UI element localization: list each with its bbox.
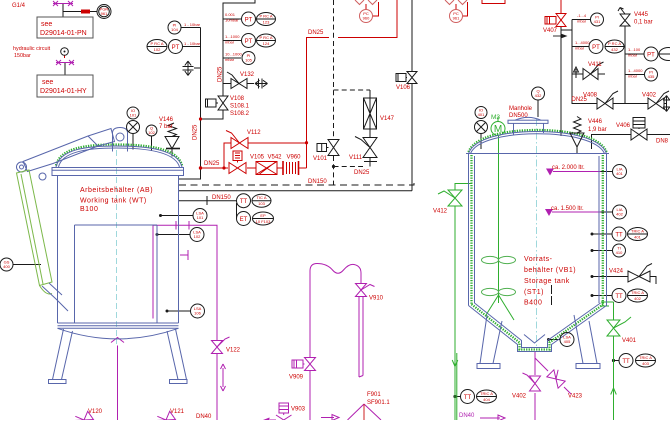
svg-text:B400: B400: [524, 300, 542, 307]
nozzle stub inside tank: [180, 250, 188, 260]
svg-text:1,9 bar: 1,9 bar: [588, 127, 607, 133]
wire vacuum header x223: [223, 0, 255, 96]
LAYER: green piping: [438, 114, 631, 420]
wire DN150 riser above V106: [411, 0, 413, 71]
LAYER: tanks: [17, 117, 610, 383]
instrument circle-dot hydraulic: [61, 48, 69, 56]
valve V120 (magenta): [73, 409, 94, 425]
hose double-arrow symbol: [221, 364, 226, 391]
wire V108 to junction: [201, 110, 224, 119]
wire V132 outlet: [247, 83, 254, 85]
cylinder foot bracket: [42, 283, 68, 311]
hinge bracket circle: [39, 173, 46, 180]
svg-text:mbar: mbar: [628, 74, 638, 79]
wire V407 inlet: [560, 0, 562, 13]
wire parallel jacket return stub: [456, 353, 458, 420]
storage tank B400 outlet funnel: [524, 335, 545, 344]
svg-text:10 F103: 10 F103: [256, 219, 271, 224]
wire V122 drain continues: [216, 354, 218, 420]
wire jacket outlet to V401: [601, 302, 614, 420]
wire LSA101 tap: [161, 215, 194, 217]
filter V147: [364, 98, 377, 129]
arrow DN40 bottom right: [480, 415, 505, 421]
svg-text:Working tank (WT): Working tank (WT): [80, 198, 147, 205]
filter V903 (magenta): [279, 403, 289, 415]
instrument PGR961: [97, 5, 111, 19]
svg-text:EP: EP: [260, 213, 266, 218]
storage tank B400 centreline: [536, 119, 538, 346]
svg-text:103: 103: [258, 201, 265, 206]
svg-text:V401: V401: [622, 338, 637, 344]
svg-text:150bar: 150bar: [14, 53, 31, 59]
flow arrow on V407 line: [553, 35, 561, 37]
svg-text:V147: V147: [380, 116, 395, 122]
svg-text:TT: TT: [240, 199, 248, 205]
svg-text:V101: V101: [313, 156, 328, 162]
sightglass circle-X 401: [475, 121, 488, 134]
flange ticks on manifold: [176, 221, 189, 230]
svg-text:404: 404: [483, 397, 490, 402]
svg-text:401: 401: [634, 235, 641, 240]
wire V147/V111 branch: [369, 90, 371, 167]
svg-text:P RC A: P RC A: [259, 14, 272, 19]
svg-text:435: 435: [648, 74, 655, 79]
svg-text:DN500: DN500: [509, 113, 528, 119]
valve under V903 (magenta): [263, 415, 292, 425]
svg-text:0.001: 0.001: [225, 12, 236, 17]
svg-text:B100: B100: [80, 206, 98, 213]
node DN25 junction y142.7: [305, 141, 308, 144]
wire V105-V542-V960 chain: [247, 167, 307, 169]
svg-text:DN25: DN25: [218, 66, 224, 82]
flange-x symbol PN line: [53, 1, 73, 6]
svg-text:1...4000: 1...4000: [575, 40, 590, 45]
valve V909 with actuator (magenta): [292, 358, 316, 371]
chevron in dished bottom: [111, 338, 124, 343]
svg-text:102: 102: [194, 234, 201, 239]
instrument Q432: [532, 87, 545, 100]
wire TT103-ET bracket: [236, 203, 239, 219]
svg-text:V146: V146: [159, 117, 174, 123]
svg-text:DN40: DN40: [196, 414, 212, 420]
wire DN150 branch to TT103: [179, 200, 237, 202]
instrument TICA103: [252, 194, 271, 207]
wire TT401 tap: [592, 233, 612, 235]
svg-text:S108.2: S108.2: [230, 111, 250, 117]
svg-text:PT: PT: [245, 39, 253, 45]
instrument IO101: [127, 107, 139, 119]
instrument PI105: [242, 52, 255, 65]
storage tank B400 top seam: [466, 153, 609, 155]
svg-text:TT: TT: [615, 233, 623, 239]
wire IO401 stem: [480, 134, 482, 150]
svg-text:400: 400: [3, 264, 10, 269]
svg-text:V412: V412: [433, 209, 448, 215]
svg-text:432: 432: [535, 93, 542, 98]
valve V407 with actuator (red): [545, 14, 566, 27]
strainer F901 cone: [348, 404, 382, 420]
wire TT403 tap (green line): [614, 360, 620, 362]
wire LIA401 tap: [601, 171, 613, 173]
valve V411: [583, 62, 604, 80]
wire DN25 vacuum dashed x333: [334, 0, 371, 185]
svg-text:TRIC A: TRIC A: [631, 290, 644, 295]
svg-text:TT: TT: [464, 395, 472, 401]
svg-text:10mbar: 10mbar: [225, 18, 239, 23]
svg-text:1...1000: 1...1000: [225, 34, 240, 39]
agitator M3 shaft: [498, 136, 500, 296]
instrument TT103: [237, 194, 251, 208]
svg-text:101: 101: [130, 113, 137, 118]
svg-text:P RC A: P RC A: [259, 35, 272, 40]
svg-text:402: 402: [634, 296, 641, 301]
svg-text:405: 405: [564, 339, 571, 344]
valve V408: [597, 91, 618, 109]
arrow up on jacket outlet line: [611, 388, 617, 404]
storage tank B400 dome inner line: [471, 134, 605, 154]
svg-text:D29014-01-HY: D29014-01-HY: [40, 88, 87, 95]
svg-text:D29014-01-PN: D29014-01-PN: [40, 30, 87, 37]
svg-text:105: 105: [245, 58, 252, 63]
svg-text:DN150: DN150: [212, 195, 231, 201]
relief valve V146: [165, 123, 180, 149]
svg-text:V105: V105: [250, 155, 265, 161]
valve V121 (magenta): [155, 409, 176, 425]
relief valve V445: [618, 8, 630, 27]
valve V112 (red): [226, 131, 248, 149]
wire LSA405 tap: [549, 339, 561, 341]
relief valve V446: [570, 117, 584, 148]
svg-text:431: 431: [594, 19, 601, 24]
storage tank B400 walls: [469, 154, 607, 306]
wire DN25 feed line to tank: [201, 167, 229, 169]
svg-text:TT: TT: [622, 359, 630, 365]
instrument PI431: [591, 13, 604, 26]
svg-text:V132: V132: [240, 72, 255, 78]
wire x572 instrument header: [561, 20, 590, 104]
wire V411 stub: [598, 73, 605, 75]
svg-text:SF901.1: SF901.1: [367, 400, 390, 406]
svg-text:G1/4: G1/4: [12, 3, 26, 9]
svg-text:mbar: mbar: [225, 40, 235, 45]
svg-text:mbar: mbar: [577, 19, 587, 24]
valve V412 (green): [438, 190, 462, 206]
level mark ca 2000 ltr: [553, 171, 601, 173]
working tank B100 bottom flange: [58, 323, 179, 328]
wire tank bottom drain: [117, 346, 119, 421]
instrument PIRCA123: [257, 13, 276, 26]
vent to atmosphere (V132 outlet): [255, 79, 268, 89]
node junction x200 y119: [199, 117, 202, 120]
valve pair above PC960: [355, 0, 377, 5]
wire M3 stem: [497, 117, 499, 122]
svg-text:V112: V112: [247, 130, 261, 136]
wire V146 stem: [171, 149, 173, 157]
wire dip-tube manifold on working tank: [153, 225, 217, 340]
working tank B100 dome: [56, 146, 182, 167]
svg-text:DN25: DN25: [572, 97, 588, 103]
instrument PIRCA432: [605, 40, 624, 53]
flange-x symbol HY line: [56, 60, 74, 65]
instrument PIRCA102: [147, 40, 167, 54]
svg-text:V903: V903: [291, 407, 306, 413]
wire V406 line: [592, 135, 670, 150]
svg-text:V445: V445: [634, 12, 649, 18]
valve V111: [355, 137, 377, 158]
instrument TT401: [612, 227, 626, 241]
wire jacket inlet V412: [455, 184, 472, 421]
svg-text:mbar: mbar: [575, 46, 585, 51]
valve V108 with actuator: [206, 96, 229, 110]
svg-text:102: 102: [148, 130, 155, 135]
svg-text:Vorrats-: Vorrats-: [524, 256, 553, 263]
svg-text:TIC A: TIC A: [256, 195, 266, 200]
lid hinge post: [113, 128, 128, 152]
valve V132: [227, 72, 247, 89]
lid arm pivot: [17, 162, 27, 172]
manhole DN500: [514, 124, 544, 136]
instrument PIRCA124: [257, 34, 276, 47]
svg-text:DN40: DN40: [459, 413, 475, 419]
working tank B100 right leg: [167, 329, 187, 380]
svg-text:V402: V402: [512, 394, 527, 400]
instrument IO401: [475, 107, 487, 119]
flange V445 tick: [620, 25, 630, 27]
wire DN25 nitrogen line (vertical x306): [307, 0, 398, 168]
wire LSA106 tap: [167, 310, 191, 312]
svg-text:0,1 bar: 0,1 bar: [634, 20, 653, 26]
svg-text:1...4000: 1...4000: [628, 68, 643, 73]
instrument PC961: [450, 10, 463, 23]
working tank B100 dished bottom: [58, 328, 179, 339]
arrow DN40 bottom centre: [321, 415, 339, 421]
wire IO101 stem: [132, 134, 134, 150]
svg-text:-1...4: -1...4: [577, 13, 587, 18]
wire V446 stem to dome: [576, 147, 578, 153]
svg-text:Manhole: Manhole: [509, 106, 533, 112]
svg-text:7 bar: 7 bar: [159, 124, 173, 130]
svg-text:V909: V909: [289, 375, 304, 381]
wire LIA402 tap: [601, 211, 613, 213]
wire V112 bypass branch: [224, 143, 307, 168]
working tank B100 dome inner line: [59, 148, 180, 167]
node dashed junction: [332, 165, 335, 168]
wire PC961 cluster: [456, 2, 468, 16]
svg-text:TT: TT: [615, 294, 623, 300]
instrument LSA106: [191, 304, 205, 318]
svg-text:DN25: DN25: [354, 170, 370, 176]
svg-text:401: 401: [478, 112, 485, 117]
storage tank B400 left leg: [480, 315, 502, 364]
red filled rect on PGR branch: [81, 10, 90, 14]
svg-text:401: 401: [616, 171, 623, 176]
instrument PT102: [169, 40, 183, 54]
svg-text:123: 123: [263, 20, 270, 25]
svg-text:410: 410: [616, 250, 623, 255]
svg-text:ET: ET: [240, 217, 248, 223]
wire V909 riser and swan-neck: [310, 264, 361, 358]
working tank B100 dome gasket (green): [56, 145, 182, 166]
svg-text:V542: V542: [268, 155, 283, 161]
instrument TT404: [461, 390, 475, 404]
svg-text:V406: V406: [616, 123, 631, 129]
instrument TRICA401: [628, 228, 648, 241]
instrument TRICA402: [628, 289, 648, 302]
svg-text:see: see: [42, 79, 53, 86]
svg-text:V121: V121: [170, 409, 185, 415]
instrument PIRCA434: [659, 48, 670, 61]
instrument PT432: [589, 40, 603, 54]
storage tank B400 wall jackets (green): [470, 155, 472, 304]
arrow down on jacket inlet line: [452, 350, 458, 367]
flange DN150 tick: [206, 196, 208, 205]
instrument TT402: [612, 289, 626, 303]
svg-text:106: 106: [194, 311, 201, 316]
instrument LSA102: [190, 228, 204, 242]
svg-text:PT: PT: [172, 45, 180, 51]
instrument PI435: [645, 68, 658, 81]
wire Q432 stem: [537, 100, 539, 117]
vent to atmosphere (manifold end): [663, 96, 670, 112]
wire Q102 stem: [151, 136, 153, 151]
svg-text:V411: V411: [588, 62, 602, 68]
instrument PI104: [168, 21, 181, 34]
valve pair above PC961: [445, 0, 467, 5]
valve V401 (green): [607, 317, 631, 336]
storage tank B400 bottom cone inner: [475, 303, 601, 348]
instrument Q102: [146, 125, 157, 136]
wire DN25 manifold: [572, 103, 667, 105]
svg-text:TRIC A: TRIC A: [631, 229, 644, 234]
svg-text:V446: V446: [588, 119, 603, 125]
instrument TI410: [613, 244, 626, 257]
svg-text:(ST1): (ST1): [524, 289, 544, 296]
working tank B100 top flange: [52, 168, 184, 176]
svg-text:ca. 1.500 ltr.: ca. 1.500 ltr.: [551, 206, 584, 212]
svg-text:1...100: 1...100: [628, 47, 641, 52]
instrument GS400: [0, 258, 13, 271]
wire hose double line below V910: [359, 297, 363, 377]
svg-text:V423: V423: [568, 394, 583, 400]
wire DN150 dashed vapour line: [179, 182, 414, 185]
svg-text:961: 961: [101, 11, 108, 16]
svg-text:V122: V122: [226, 348, 241, 354]
level mark ca 1500 ltr: [552, 211, 601, 213]
wire HY supply drop: [64, 63, 66, 75]
svg-text:960: 960: [363, 16, 370, 21]
storage tank B400 right leg: [574, 315, 597, 364]
wire storage tank drain: [534, 352, 536, 421]
svg-text:mbar: mbar: [225, 57, 235, 62]
svg-text:403: 403: [642, 361, 649, 366]
wire TT402 tap: [592, 295, 612, 297]
wire PI104/PT102 header: [179, 28, 201, 180]
svg-text:1 - 10bar: 1 - 10bar: [184, 41, 201, 46]
svg-text:V910: V910: [369, 296, 384, 302]
valve V106 with actuator: [396, 72, 417, 84]
svg-text:M3: M3: [491, 114, 500, 121]
agitator propeller upper: [482, 256, 516, 263]
svg-text:101: 101: [197, 215, 204, 220]
svg-text:behälter (VB1): behälter (VB1): [524, 267, 576, 274]
svg-text:PT: PT: [245, 18, 253, 24]
svg-text:DN8: DN8: [656, 139, 669, 145]
control valve V542 (red): [256, 162, 277, 175]
reference box D29014-01-HY: [37, 75, 93, 97]
storage tank B400 dome jacket (green): [469, 130, 607, 152]
svg-text:124: 124: [263, 41, 270, 46]
instrument LSA101: [193, 209, 207, 223]
svg-text:DN150: DN150: [308, 179, 327, 185]
wire DN150 solid vapour line: [179, 83, 413, 191]
svg-text:432: 432: [611, 47, 618, 52]
instrument LSA405: [560, 333, 574, 347]
instrument ET: [237, 212, 251, 226]
svg-text:P RC A: P RC A: [608, 41, 621, 46]
svg-text:S108.1: S108.1: [230, 104, 250, 110]
wire V909 outlet down: [309, 371, 311, 420]
agitator bottom guide: [486, 295, 514, 320]
wire TI410 tap: [592, 250, 612, 252]
valve V423 diagonal (magenta): [547, 368, 568, 389]
wire V423 diagonal branch: [535, 358, 571, 394]
red mark G1/4 stub: [64, 55, 66, 58]
svg-text:Arbeitsbehälter (AB): Arbeitsbehälter (AB): [80, 187, 153, 194]
working tank B100 centreline: [116, 150, 118, 344]
reference box D29014-01-PN: [37, 17, 93, 38]
wire GS400 tap: [13, 264, 41, 266]
agitator propeller lower: [482, 288, 516, 295]
svg-text:V120: V120: [88, 409, 103, 415]
storage tank B400 bottom cone jacket (green): [472, 304, 604, 349]
svg-text:V960: V960: [287, 155, 302, 161]
svg-text:DN25: DN25: [193, 124, 199, 140]
wire TT404 tap (green line): [455, 396, 461, 398]
valve V105 with pilot (red): [229, 151, 246, 174]
svg-text:104: 104: [171, 27, 178, 32]
svg-text:see: see: [41, 21, 52, 28]
sample point on V411 stem: [574, 67, 579, 78]
instrument TT403: [619, 354, 633, 368]
valve V122 (magenta): [212, 337, 230, 354]
instrument PT434: [644, 47, 658, 61]
instrument PC960: [360, 10, 373, 23]
svg-text:TRIC A: TRIC A: [480, 391, 493, 396]
svg-text:ca. 2.000 ltr.: ca. 2.000 ltr.: [552, 165, 585, 171]
svg-text:1 - 10bar: 1 - 10bar: [184, 22, 201, 27]
svg-text:PT: PT: [592, 45, 600, 51]
working tank B100 left leg: [53, 329, 73, 380]
working tank B100 inner vessel: [75, 225, 158, 323]
LAYER: red piping: [65, 0, 562, 170]
cursor bars near B400 text: [551, 285, 553, 305]
svg-text:DN25: DN25: [204, 161, 220, 167]
svg-text:V106: V106: [396, 85, 411, 91]
valve V910 (magenta): [356, 284, 375, 297]
wire V445 riser: [625, 26, 644, 104]
wire PN supply drop: [63, 4, 97, 17]
instrument LIA402: [613, 205, 627, 219]
wire V407 outlet into tank: [560, 27, 562, 136]
instrument PT124: [242, 34, 256, 48]
instrument TRICA404: [477, 390, 497, 403]
storage tank B400 dome: [469, 132, 607, 154]
instrument LIA401: [613, 165, 627, 179]
sightglass circle-X 101: [127, 121, 140, 134]
svg-text:PT: PT: [647, 53, 655, 59]
svg-text:V424: V424: [609, 269, 624, 275]
lid swing arm: [23, 129, 115, 172]
